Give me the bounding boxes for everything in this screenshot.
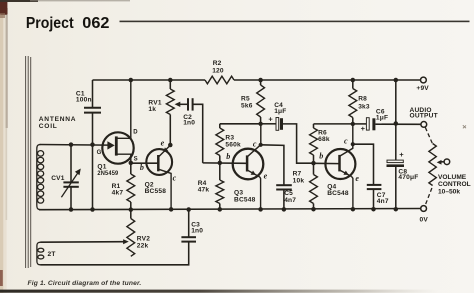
svg-text:b: b	[226, 152, 230, 161]
svg-text:b: b	[140, 163, 144, 172]
svg-text:1k: 1k	[148, 106, 156, 113]
svg-text:47k: 47k	[198, 186, 210, 193]
label Q1 2N5459	[97, 164, 118, 178]
wire +9V top rail right section	[234, 79, 421, 81]
stray mark right edge	[463, 125, 466, 128]
capacitor C6 1uF (electrolytic)	[353, 118, 421, 131]
svg-text:4n7: 4n7	[377, 198, 389, 205]
terminal audio output	[421, 122, 427, 128]
node C5 at 0V rail	[282, 207, 287, 212]
resistor R6 68k	[310, 124, 318, 163]
label C4 1uF	[274, 102, 286, 115]
svg-text:VOLUME: VOLUME	[438, 174, 467, 181]
potentiometer volume control 10-50k	[429, 144, 444, 186]
svg-text:5k6: 5k6	[241, 103, 253, 110]
label Q2 BC558	[145, 182, 167, 195]
left fold shadow	[6, 8, 8, 220]
pin label b Q3	[226, 152, 230, 161]
header rule	[120, 21, 470, 23]
svg-text:G: G	[97, 150, 102, 156]
svg-text:R8: R8	[358, 96, 367, 103]
svg-text:BC548: BC548	[234, 197, 256, 204]
label Q3 BC548	[234, 190, 256, 204]
node Q3 collector junction	[258, 122, 262, 126]
node R7 at 0V rail	[311, 207, 316, 212]
label R1 4k7	[112, 183, 124, 197]
svg-text:e: e	[264, 171, 268, 180]
capacitor C8 470uF (electrolytic)	[387, 160, 405, 209]
label R6 68k	[318, 129, 330, 143]
label R7 10k	[293, 170, 305, 184]
capacitor C7 4n7	[353, 144, 382, 209]
svg-text:D: D	[133, 130, 138, 136]
svg-text:10–50k: 10–50k	[438, 189, 460, 196]
resistor R2 120	[205, 76, 234, 84]
capacitor C3 1n0	[41, 210, 197, 265]
label 0V	[420, 217, 429, 224]
svg-text:1μF: 1μF	[274, 108, 286, 115]
svg-text:Fig 1. Circuit diagram of the: Fig 1. Circuit diagram of the tuner.	[28, 280, 142, 287]
node CV1 at 0V rail	[69, 207, 74, 212]
resistor R7 10k	[310, 163, 318, 209]
resistor R3 560k	[216, 124, 224, 163]
label R5 5k6	[241, 95, 253, 109]
wire dashed audio to volume pot	[425, 127, 432, 143]
svg-text:120: 120	[212, 67, 224, 74]
label C1 100n	[76, 90, 92, 103]
label C5 4n7	[284, 190, 296, 204]
svg-text:b: b	[319, 152, 323, 161]
svg-text:CV1: CV1	[51, 175, 65, 182]
node Q3 emitter at 0V rail	[258, 207, 263, 212]
node Q1 drain at rail	[129, 78, 134, 83]
coupling coil 2T	[37, 242, 44, 265]
node R1-RV2 at 0V rail	[129, 207, 134, 212]
node +9V branch at rail	[394, 78, 399, 83]
node RV1 top at rail	[168, 78, 173, 83]
label VOLUME CONTROL 10-50k	[438, 174, 471, 195]
node Q4 emitter at 0V rail	[351, 207, 356, 212]
top edge shadow line	[0, 0, 130, 2]
node R3-R4 base junction	[218, 161, 223, 166]
node R5 top at rail	[258, 78, 263, 83]
label C6 1uF	[376, 108, 388, 121]
node C8 at 0V rail	[394, 207, 399, 212]
svg-text:e: e	[355, 174, 359, 183]
svg-text:2T: 2T	[48, 251, 56, 258]
svg-text:Q3: Q3	[234, 190, 243, 197]
wire +9V branch down	[395, 80, 397, 160]
wire gate line (tank top)	[40, 144, 109, 147]
svg-text:10k: 10k	[293, 178, 305, 185]
node R8 top at rail	[351, 78, 356, 83]
node tank leg at 0V rail	[90, 207, 95, 212]
wire 0V bottom rail	[39, 209, 421, 210]
node Q4 collector C7 tap	[351, 142, 355, 146]
label ANTENNA COIL	[39, 116, 77, 130]
svg-text:22k: 22k	[137, 242, 149, 249]
svg-text:+: +	[361, 124, 366, 133]
node Q4 collector junction	[351, 122, 355, 126]
svg-text:S: S	[134, 157, 138, 163]
label 2T	[48, 251, 56, 258]
wire Q3 base line	[203, 162, 247, 164]
label R4 47k	[198, 180, 210, 194]
variable capacitor CV1	[61, 145, 80, 210]
pin label c Q4	[344, 137, 348, 146]
svg-text:100n: 100n	[76, 97, 92, 104]
capacitor C5 4n7	[261, 145, 292, 210]
svg-text:+: +	[268, 115, 273, 124]
label + C6	[361, 124, 366, 133]
resistor R8 3k3	[349, 80, 357, 124]
label RV2 22k	[137, 236, 150, 250]
label Q4 BC548	[327, 183, 349, 197]
svg-text:c: c	[344, 137, 348, 146]
node Q1 source junction	[129, 161, 134, 166]
svg-text:R2: R2	[213, 60, 222, 67]
node Q2 collector at 0V rail	[169, 207, 174, 212]
label AUDIO OUTPUT	[410, 107, 438, 120]
svg-text:0V: 0V	[420, 217, 429, 224]
svg-text:R7: R7	[293, 170, 302, 177]
potentiometer RV2 22k	[127, 210, 135, 257]
resistor R5 5k6	[257, 80, 265, 124]
label C3 1n0	[191, 221, 203, 234]
label +9V	[416, 85, 429, 92]
pin label b Q2	[140, 163, 144, 172]
pin label D Q1	[133, 130, 138, 136]
pin label S Q1	[134, 157, 138, 163]
wire Q2 base	[131, 162, 158, 164]
label CV1	[51, 175, 65, 182]
node C3 at 0V rail	[186, 207, 191, 212]
svg-text:R3: R3	[225, 134, 234, 141]
node R4 at 0V rail	[218, 207, 223, 212]
wire 2T to RV2 wiper	[41, 239, 129, 244]
node Q4 base junction	[311, 161, 316, 166]
label + C4	[268, 115, 273, 124]
svg-text:062: 062	[82, 15, 109, 32]
capacitor C2 1n0	[188, 98, 203, 163]
spine lines	[26, 56, 31, 268]
bottom-left dark edge mark	[0, 270, 3, 286]
resistor R4 47k	[216, 163, 224, 210]
pin label b Q4	[319, 152, 323, 161]
pin label G Q1	[97, 150, 102, 156]
antenna coil L1 winding	[37, 145, 44, 210]
svg-text:4k7: 4k7	[112, 190, 124, 197]
potentiometer RV1 1k	[166, 80, 187, 145]
terminal +9V	[421, 77, 427, 83]
node C7 at 0V rail	[371, 207, 376, 212]
svg-text:COIL: COIL	[39, 123, 58, 130]
pin label e Q4	[355, 174, 359, 183]
header title Project 062	[26, 15, 110, 32]
svg-text:+: +	[399, 150, 404, 159]
capacitor C1	[84, 80, 101, 145]
bottom edge bar	[0, 290, 440, 293]
label R3 560k	[225, 134, 241, 148]
caption Fig 1	[28, 280, 142, 287]
node audio line crossing	[394, 121, 399, 126]
wire R3 top to collector node	[220, 123, 261, 125]
svg-text:BC548: BC548	[327, 190, 349, 197]
node tank-C1 junction	[90, 142, 95, 147]
pin label c Q3	[253, 139, 257, 148]
label RV1 1k	[148, 100, 161, 114]
top-left dark corner mark	[0, 1, 7, 18]
node Q3 collector C5 tap	[259, 143, 263, 147]
transistor Q4 BC548 (NPN)	[325, 124, 355, 209]
label + C8	[399, 150, 404, 159]
capacitor C4 1uF (electrolytic)	[261, 118, 314, 164]
svg-text:4n7: 4n7	[284, 197, 296, 204]
wire R6 top to R8 node	[314, 123, 353, 125]
svg-text:c: c	[173, 173, 177, 182]
wire tank right leg to 0V	[92, 145, 94, 210]
svg-text:470μF: 470μF	[398, 174, 418, 181]
transistor Q2 BC558 (PNP)	[146, 145, 172, 209]
resistor R1 4k7	[127, 163, 135, 210]
terminal 0V	[421, 206, 427, 212]
svg-text:CONTROL: CONTROL	[438, 181, 471, 188]
pin label c Q2	[173, 173, 177, 182]
svg-text:1n0: 1n0	[191, 228, 203, 235]
label C8 470uF	[398, 168, 418, 181]
svg-text:1μF: 1μF	[376, 115, 388, 122]
node RV1 bottom / Q2 emitter	[168, 143, 173, 148]
transistor Q3 BC548 (NPN)	[233, 124, 264, 210]
svg-text:2N5459: 2N5459	[97, 170, 118, 177]
svg-text:e: e	[161, 139, 165, 148]
label C7 4n7	[377, 192, 389, 205]
svg-text:560k: 560k	[225, 141, 241, 148]
svg-text:BC558: BC558	[145, 188, 167, 195]
terminal volume wiper	[444, 159, 450, 165]
left page-edge strip	[0, 0, 7, 293]
wire Q4 base	[314, 162, 339, 164]
svg-text:1n0: 1n0	[183, 120, 195, 127]
svg-text:68k: 68k	[318, 136, 330, 143]
svg-text:R5: R5	[241, 95, 250, 102]
label R2 120	[212, 60, 224, 74]
node tank-CV1 junction	[69, 142, 74, 147]
pin label e Q3	[264, 171, 268, 180]
wire +9V top rail left section	[93, 79, 206, 81]
svg-text:c: c	[253, 139, 257, 148]
label C2 1n0	[183, 114, 195, 126]
transistor Q1 2N5459 (JFET)	[102, 80, 133, 164]
pin label e Q2	[161, 139, 165, 148]
wire dashed volume pot to 0V	[425, 188, 432, 205]
svg-text:3k3: 3k3	[358, 103, 370, 110]
svg-text:Project: Project	[26, 15, 74, 32]
svg-text:OUTPUT: OUTPUT	[410, 113, 438, 120]
svg-text:+9V: +9V	[416, 85, 429, 92]
label R8 3k3	[358, 96, 370, 111]
